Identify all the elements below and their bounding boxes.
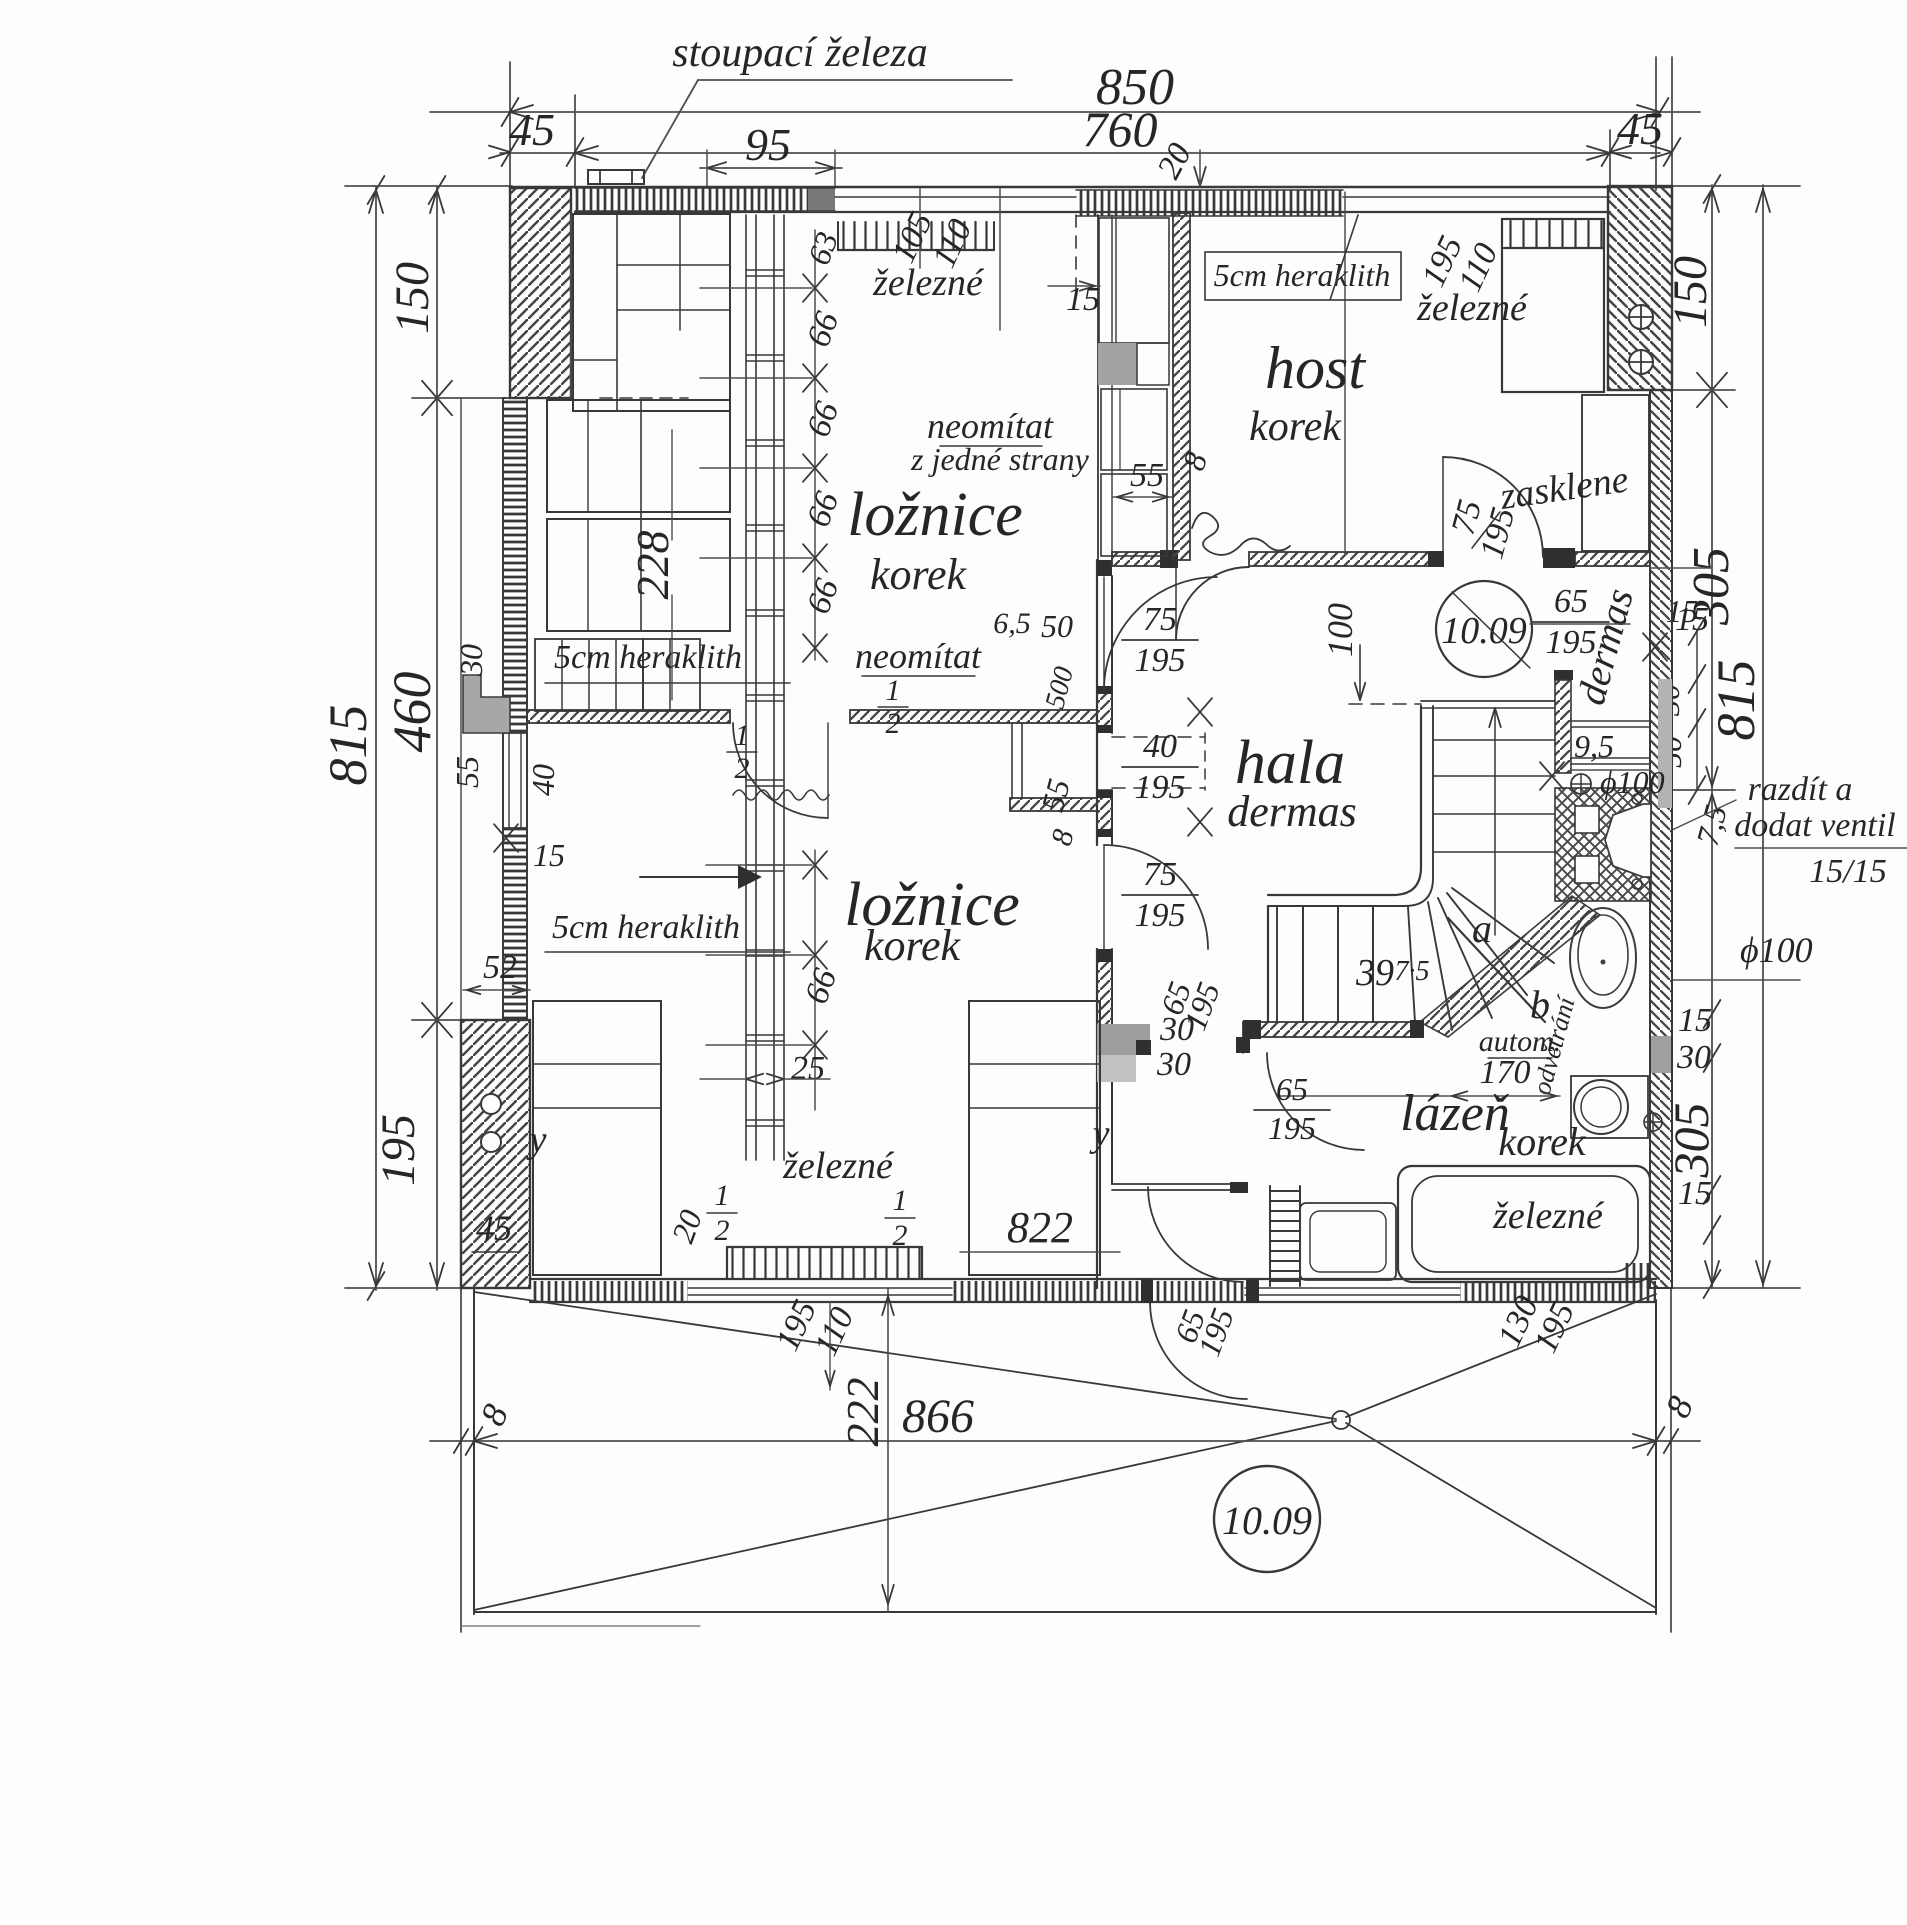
svg-text:1: 1 [715,1179,730,1212]
svg-text:dodat ventil: dodat ventil [1734,807,1895,844]
svg-text:815: 815 [1706,660,1766,741]
svg-text:železné: železné [872,262,985,304]
svg-text:2: 2 [715,1214,730,1247]
svg-text:65: 65 [1276,1071,1308,1107]
svg-text:195: 195 [1135,897,1186,934]
svg-text:65: 65 [1554,583,1588,620]
svg-text:1: 1 [886,674,901,707]
svg-text:75: 75 [1143,601,1177,638]
svg-text:dermas: dermas [1227,787,1357,836]
svg-text:železné: železné [1416,287,1529,329]
svg-text:9,5: 9,5 [1574,728,1614,764]
svg-text:stoupací železa: stoupací železa [672,30,927,76]
svg-text:6,5: 6,5 [993,607,1031,640]
svg-text:45: 45 [476,1208,512,1248]
svg-text:866: 866 [902,1390,974,1443]
svg-text:a: a [1472,906,1492,951]
svg-text:15: 15 [533,837,565,873]
svg-text:1: 1 [735,719,750,752]
svg-text:korek: korek [1249,404,1342,450]
svg-text:5cm heraklith: 5cm heraklith [552,909,740,946]
svg-text:30: 30 [453,644,489,677]
svg-text:15: 15 [1678,1175,1712,1212]
svg-text:železné: železné [782,1145,895,1187]
svg-text:75: 75 [1143,856,1177,893]
svg-text:1: 1 [893,1184,908,1217]
svg-text:100: 100 [1320,603,1360,657]
svg-text:150: 150 [386,262,439,334]
svg-text:195: 195 [1268,1110,1316,1146]
svg-text:5cm heraklith: 5cm heraklith [554,639,742,676]
svg-text:15/15: 15/15 [1809,853,1886,890]
svg-text:2: 2 [886,707,901,740]
svg-text:195: 195 [372,1114,425,1186]
svg-text:7·5: 7·5 [1395,956,1430,987]
svg-text:95: 95 [745,119,791,170]
svg-text:25: 25 [791,1050,825,1087]
svg-text:815: 815 [318,705,378,786]
svg-text:železné: železné [1492,1195,1605,1237]
svg-text:55: 55 [449,756,485,788]
svg-text:neomítat: neomítat [927,406,1054,446]
svg-text:10.09: 10.09 [1441,610,1527,652]
svg-text:195: 195 [1135,642,1186,679]
svg-text:y: y [526,1119,547,1161]
svg-text:ϕ100: ϕ100 [1740,930,1813,970]
svg-text:822: 822 [1007,1203,1073,1252]
svg-text:5cm heraklith: 5cm heraklith [1214,257,1391,293]
svg-text:15: 15 [1678,1002,1712,1039]
svg-text:460: 460 [382,672,442,753]
svg-text:760: 760 [1083,101,1158,157]
svg-text:korek: korek [864,921,962,970]
svg-text:lázeň: lázeň [1400,1085,1510,1142]
svg-text:15: 15 [1675,601,1709,638]
svg-text:40: 40 [1143,728,1177,765]
svg-text:222: 222 [837,1378,888,1447]
svg-text:10.09: 10.09 [1222,1498,1312,1543]
svg-text:2: 2 [735,752,750,785]
svg-text:30: 30 [1676,1039,1711,1076]
svg-text:52: 52 [483,949,517,986]
svg-text:korek: korek [1498,1119,1587,1164]
svg-text:195: 195 [1546,624,1597,661]
svg-text:neomítat: neomítat [855,636,982,676]
svg-text:2: 2 [893,1219,908,1252]
svg-text:razdít a: razdít a [1748,771,1853,808]
svg-text:15: 15 [1066,281,1100,318]
svg-text:ϕ100: ϕ100 [1600,764,1665,800]
svg-text:host: host [1265,335,1366,401]
svg-text:228: 228 [627,531,678,600]
svg-text:50: 50 [1041,608,1073,644]
svg-text:y: y [1089,1113,1110,1155]
svg-text:korek: korek [870,550,968,599]
svg-text:45: 45 [509,104,555,155]
svg-text:ložnice: ložnice [847,481,1023,549]
svg-text:55: 55 [1130,457,1164,494]
svg-text:195: 195 [1135,769,1186,806]
svg-text:39: 39 [1355,952,1394,994]
svg-text:30: 30 [1156,1046,1191,1083]
svg-text:40: 40 [525,764,561,796]
